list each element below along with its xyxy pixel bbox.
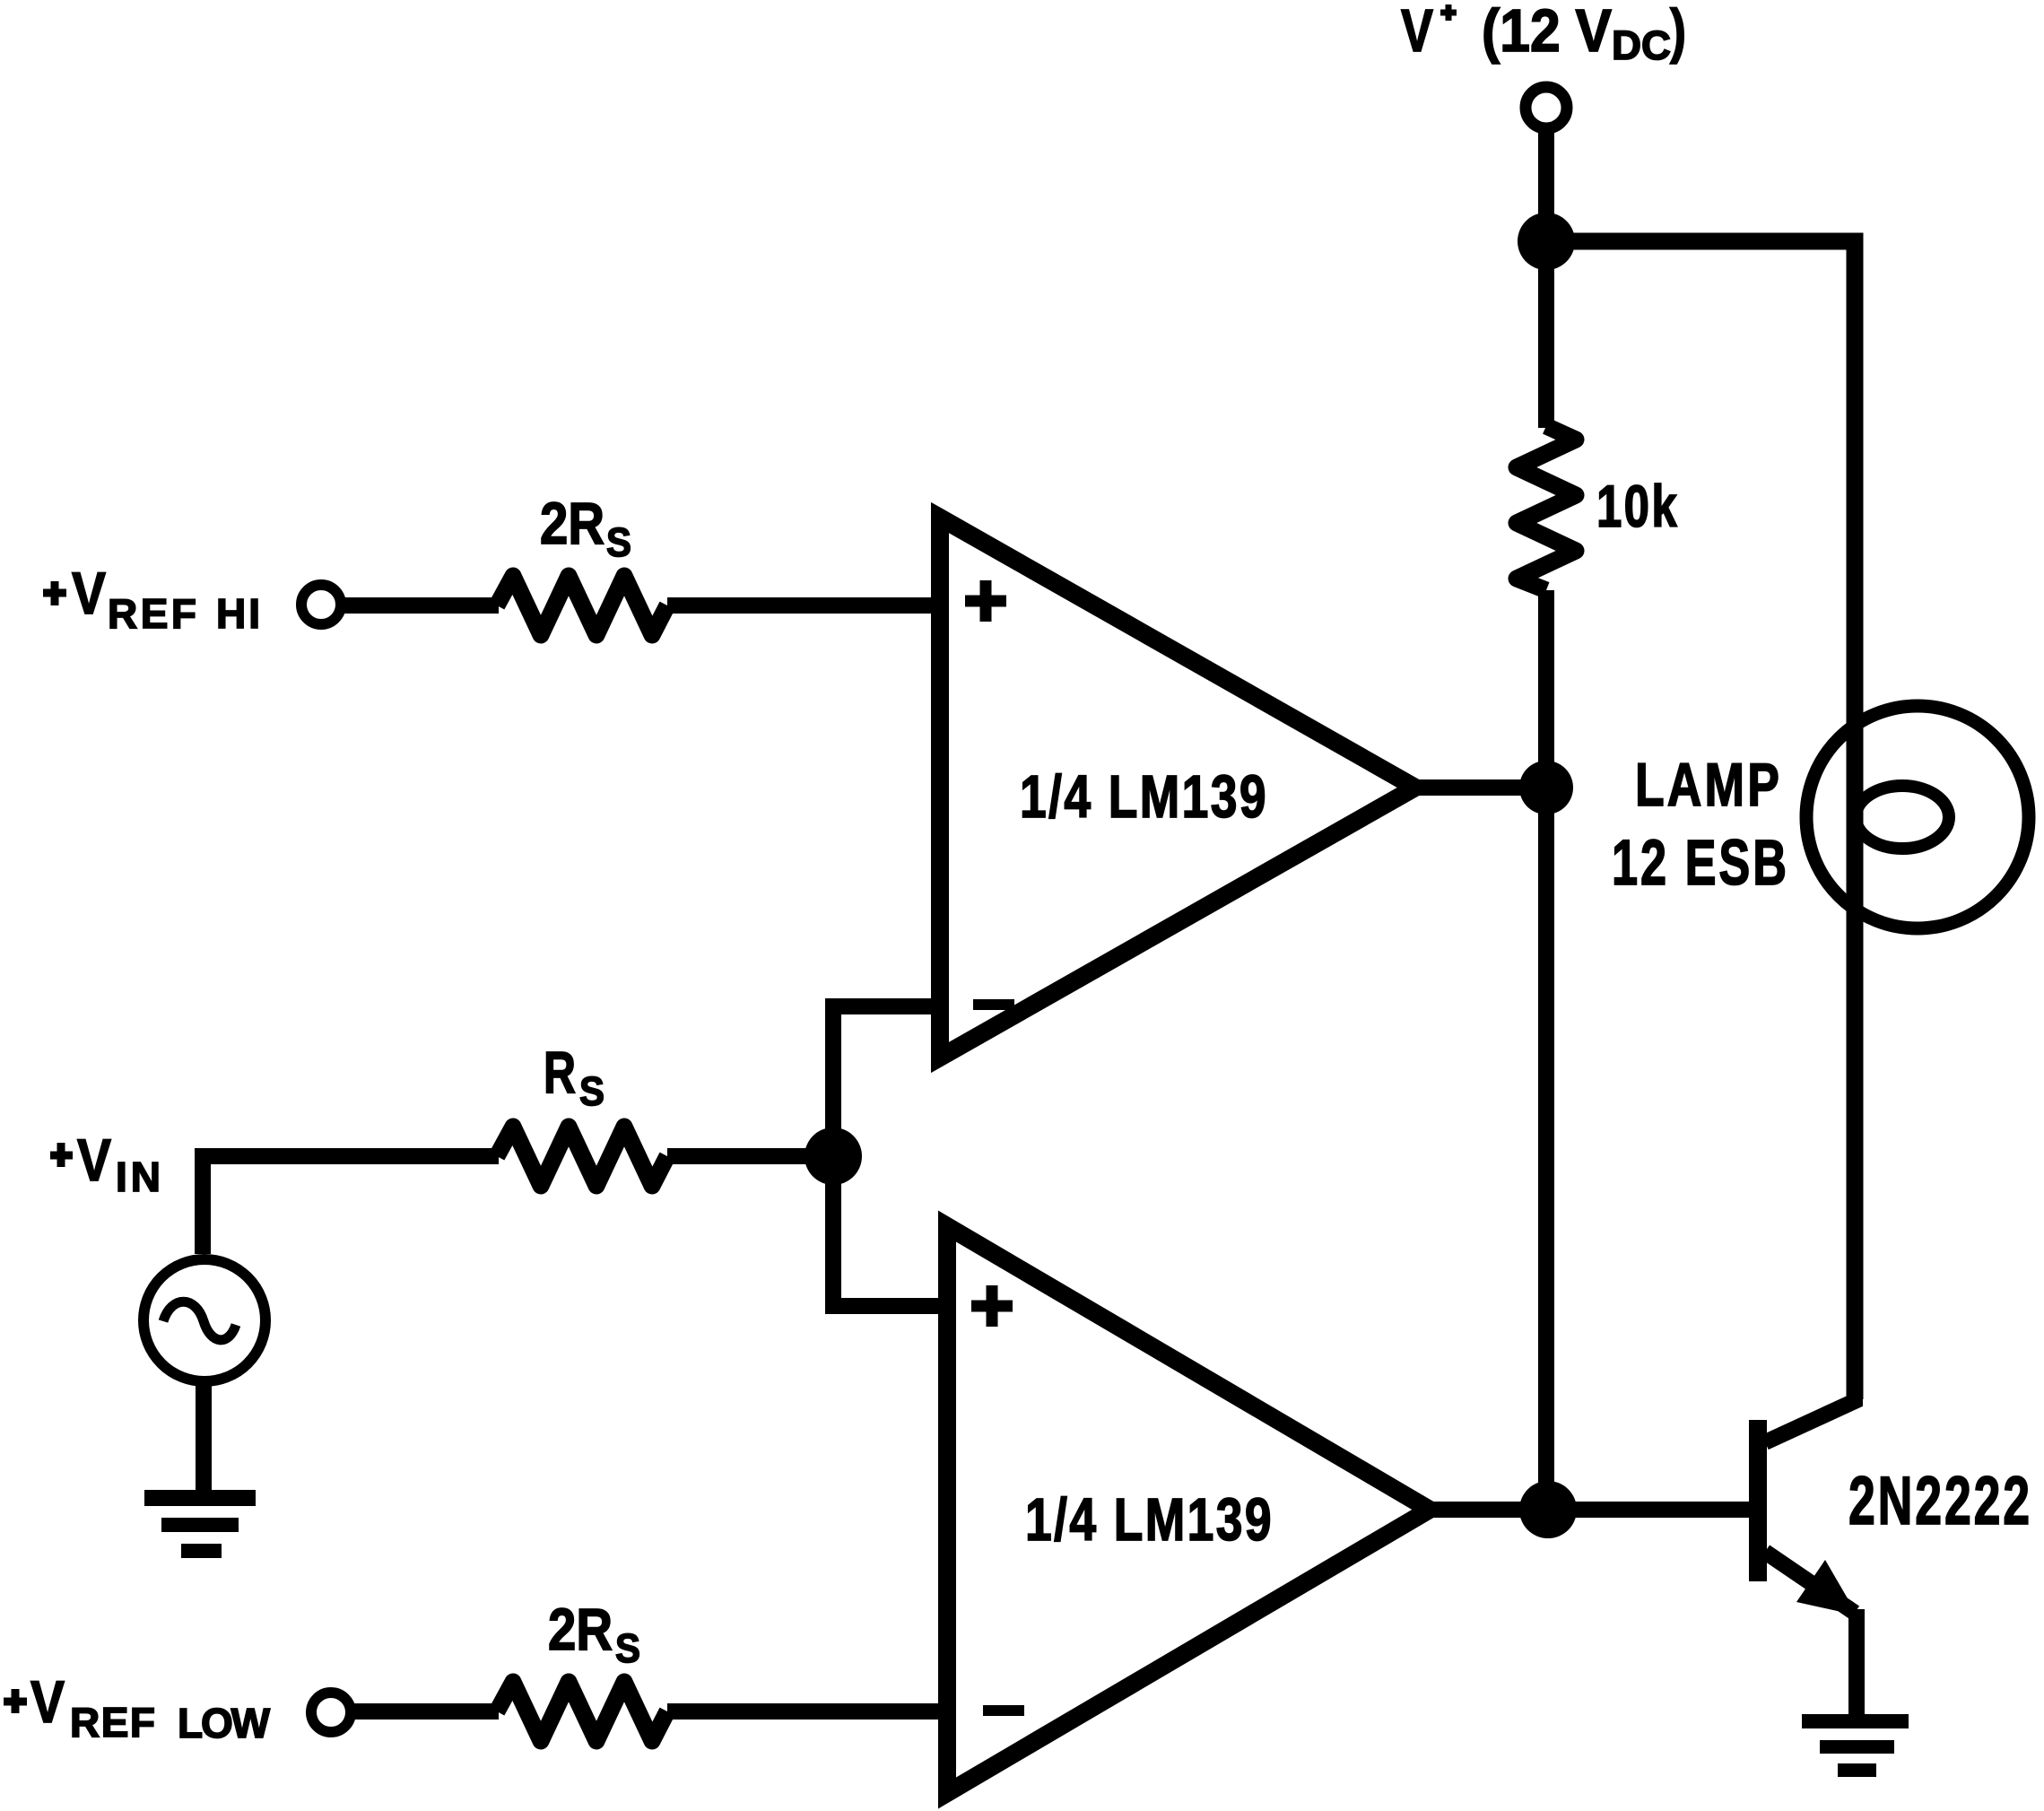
svg-text:2N2222: 2N2222 bbox=[1848, 1463, 2032, 1539]
resistor 2RS bottom bbox=[497, 1682, 667, 1741]
svg-text:LOW: LOW bbox=[178, 1700, 271, 1746]
terminal V+ bbox=[1526, 87, 1567, 128]
svg-text:HI: HI bbox=[216, 590, 260, 637]
transistor Q1 emitter lead bbox=[1765, 1552, 1855, 1613]
label 2RS top bbox=[540, 490, 631, 565]
lamp DS1 filament loop bbox=[1856, 786, 1949, 849]
wire top rail and right branch bbox=[1546, 241, 1855, 1399]
wire VREF LOW to op-amp bbox=[667, 1703, 947, 1720]
wire RS to input node bbox=[667, 1148, 833, 1164]
wire output bus vertical bbox=[1538, 788, 1554, 1510]
svg-text:1/4 LM139: 1/4 LM139 bbox=[1020, 763, 1268, 831]
label 2RS bottom bbox=[548, 1596, 640, 1671]
wire U2 output stub bbox=[1430, 1502, 1548, 1518]
terminal +VREF LOW bbox=[311, 1693, 351, 1732]
op-amp U2 1/4 LM139 bottom bbox=[947, 1226, 1430, 1793]
wire 10k bottom lead bbox=[1538, 590, 1554, 788]
wire VIN horizontal bbox=[203, 1156, 499, 1254]
wire U1 output stub bbox=[1415, 779, 1546, 796]
resistor 10k bbox=[1517, 426, 1576, 590]
svg-text:V: V bbox=[72, 560, 106, 626]
resistor 2RS top bbox=[497, 576, 667, 635]
svg-text:V: V bbox=[77, 1127, 111, 1193]
svg-text:LAMP: LAMP bbox=[1635, 751, 1782, 819]
label RS bbox=[544, 1039, 605, 1114]
svg-text:V: V bbox=[30, 1668, 65, 1735]
svg-text:REF: REF bbox=[70, 1699, 155, 1746]
wire VREF HI lead-in bbox=[344, 597, 499, 614]
wire VREF HI to op-amp bbox=[667, 597, 949, 614]
ground Q1 emitter bbox=[1802, 1714, 1909, 1777]
svg-text:DC: DC bbox=[1612, 22, 1671, 68]
svg-text:REF: REF bbox=[108, 590, 196, 637]
svg-text:S: S bbox=[615, 1625, 640, 1671]
transistor Q1 collector lead bbox=[1765, 1396, 1855, 1442]
svg-text:V: V bbox=[1401, 0, 1433, 65]
source VIN sine generator bbox=[144, 1259, 265, 1381]
label +VREF HI bbox=[43, 560, 260, 637]
svg-text:S: S bbox=[606, 519, 631, 565]
svg-text:S: S bbox=[579, 1068, 605, 1114]
ground source bbox=[144, 1490, 256, 1558]
svg-text:IN: IN bbox=[116, 1154, 161, 1200]
label +VIN bbox=[50, 1127, 161, 1200]
svg-text:R: R bbox=[544, 1039, 576, 1105]
op-amp U2 plus input marking bbox=[971, 1285, 1013, 1327]
op-amp U1 1/4 LM139 top bbox=[940, 518, 1415, 1058]
wire source to ground bbox=[196, 1381, 212, 1491]
node comparator output top bbox=[1519, 761, 1573, 814]
svg-text:(12 V: (12 V bbox=[1482, 0, 1612, 65]
op-amp U1 plus input marking bbox=[965, 580, 1006, 622]
wire node to U2 plus input bbox=[833, 1156, 947, 1306]
wire VREF LOW lead-in bbox=[354, 1703, 499, 1720]
lamp DS1 bulb circle bbox=[1806, 706, 2029, 928]
terminal +VREF HI bbox=[301, 585, 341, 624]
svg-text:10k: 10k bbox=[1596, 473, 1679, 539]
wire emitter to ground bbox=[1848, 1609, 1865, 1717]
label +VREF LOW bbox=[4, 1668, 271, 1746]
node comparator output bottom bbox=[1519, 1481, 1577, 1538]
label V+ (12 VDC) bbox=[1401, 0, 1686, 68]
op-amp U2 minus input marking bbox=[983, 1705, 1024, 1716]
wire 10k top lead bbox=[1538, 241, 1554, 428]
wire base of Q1 bbox=[1548, 1502, 1751, 1518]
op-amp U1 minus input marking bbox=[973, 999, 1014, 1010]
resistor RS bbox=[497, 1127, 667, 1186]
svg-text:12 ESB: 12 ESB bbox=[1612, 828, 1789, 899]
transistor Q1 2N2222 base bar bbox=[1749, 1420, 1767, 1581]
wire V+ drop bbox=[1538, 132, 1554, 233]
node V+ junction bbox=[1518, 213, 1575, 270]
node VIN input bbox=[805, 1128, 862, 1185]
svg-text:): ) bbox=[1670, 0, 1686, 65]
wire node to U1 minus input bbox=[833, 1006, 940, 1156]
svg-text:2R: 2R bbox=[548, 1596, 613, 1662]
svg-text:1/4 LM139: 1/4 LM139 bbox=[1025, 1486, 1274, 1554]
transistor Q1 emitter arrowhead bbox=[1796, 1560, 1857, 1615]
svg-text:2R: 2R bbox=[540, 490, 605, 556]
